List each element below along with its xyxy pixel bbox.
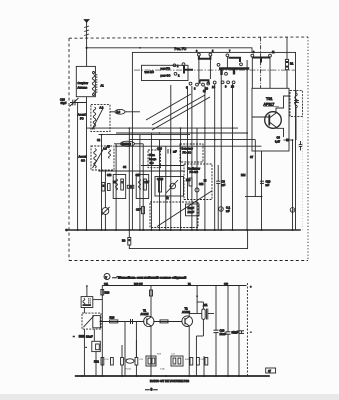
svg-text:A 2: A 2: [100, 106, 104, 110]
svg-text:R20: R20: [110, 316, 115, 320]
svg-text:V: V: [105, 275, 107, 279]
capacitor C20: [260, 180, 264, 182]
svg-text:mF: mF: [266, 183, 270, 187]
trimmer C1: [70, 102, 87, 104]
wire L6: [110, 111, 115, 113]
coil A3 dashed box: [91, 146, 114, 170]
wire vertical x214: [214, 84, 216, 230]
svg-text:AC125: AC125: [141, 312, 149, 316]
wire vertical x204: [204, 86, 206, 230]
svg-text:Oscillateur: Oscillateur: [188, 167, 200, 171]
svg-text:vers EO: vers EO: [145, 70, 154, 74]
variable capacitor gang: [102, 208, 109, 215]
svg-text:C17: C17: [136, 208, 141, 212]
left antenna stub: [86, 286, 88, 297]
svg-text:A5: A5: [107, 145, 111, 149]
svg-text:C18: C18: [60, 98, 65, 102]
svg-text:C6: C6: [277, 136, 281, 140]
svg-text:A1: A1: [101, 84, 105, 88]
wire vertical x151: [150, 133, 152, 230]
wire vertical x221: [220, 75, 222, 230]
oval L6: [115, 109, 125, 114]
capacitor top right: [300, 141, 302, 145]
wire vertical x86: [86, 97, 88, 230]
svg-text:C.1: C.1: [226, 206, 231, 210]
capacitor C19: [226, 331, 231, 333]
ground rail: [67, 229, 301, 231]
antenna: [84, 20, 89, 67]
wire vertical x232: [232, 84, 234, 230]
svg-text:FO: FO: [80, 117, 84, 121]
wire vertical x180: [180, 128, 182, 230]
wire R1 vertical: [286, 37, 288, 59]
capacitor C8: [216, 180, 220, 182]
capacitor mid: [130, 319, 132, 324]
wire pot to box3: [93, 329, 95, 341]
svg-text:R64 C65: R64 C65: [134, 284, 143, 286]
svg-text:10mF: 10mF: [220, 332, 227, 336]
dashed enclosure border right: [307, 37, 309, 261]
wire vertical x187: [187, 86, 189, 200]
volume pot dashed box: [82, 313, 101, 329]
IF transformer above T1: [150, 290, 153, 296]
coil A2 dashed box: [91, 105, 110, 132]
wire drop contact 7: [226, 57, 228, 68]
switch section divider: [260, 37, 262, 88]
wire C9: [114, 143, 121, 145]
switch lower contact circles: [189, 82, 192, 85]
switch contact lower U: [200, 80, 209, 84]
oscillator coil dashed box: [290, 91, 303, 117]
dashed enclosure border bottom: [69, 260, 308, 262]
wire vertical right of osc: [292, 140, 294, 230]
left column wire: [83, 308, 85, 314]
svg-text:Filtre: Filtre: [149, 153, 155, 157]
wire below rail loop: [129, 230, 247, 249]
wire osc bottom drops: [254, 151, 256, 197]
svg-text:– Tension au ralenti sans sign: – Tension au ralenti sans signal: [113, 276, 187, 280]
bottom component row: [101, 358, 104, 366]
capacitor C21: [239, 330, 244, 332]
meter V2: [290, 208, 295, 213]
wire osc box right: [295, 91, 297, 93]
svg-text:GO: GO: [81, 159, 85, 163]
switch contact bar B: [229, 58, 241, 62]
wire diagonal 3: [146, 94, 191, 120]
capacitor C1 bottom: [79, 335, 86, 338]
wire drop contact 11: [269, 57, 271, 88]
vertical with R18: [101, 286, 103, 322]
oscillator box: [252, 88, 289, 151]
wire vertical x165: [165, 146, 167, 230]
svg-text:C8: C8: [222, 180, 226, 184]
node antenna junction: [86, 47, 88, 49]
svg-text:10mF: 10mF: [86, 335, 93, 339]
svg-text:R14: R14: [241, 174, 246, 177]
wire vertical x197: [196, 128, 198, 230]
bottom rail thick: [75, 375, 270, 377]
svg-text:Pos. FO: Pos. FO: [175, 47, 187, 51]
verticals right bottom schematic: [215, 286, 217, 331]
svg-text:Accord: Accord: [78, 113, 87, 117]
resistor R20: [110, 320, 118, 323]
svg-text:pour GO: pour GO: [161, 74, 171, 78]
svg-text:Image: Image: [149, 157, 157, 161]
svg-text:C13: C13: [107, 174, 112, 177]
svg-text:2mA: 2mA: [160, 368, 165, 371]
small box 10mF: [186, 204, 200, 216]
resistor cluster left of IF box: [102, 183, 105, 192]
coil A1: [92, 75, 95, 93]
wire vertical x77: [77, 103, 79, 231]
resistor R1: [285, 59, 288, 69]
detecteur dashed box: [180, 144, 203, 162]
svg-text:Coupleur: Coupleur: [78, 81, 89, 85]
svg-text:FO-GO: FO-GO: [183, 151, 192, 155]
capacitor C16: [167, 149, 169, 154]
svg-text:Antenne: Antenne: [78, 86, 88, 90]
dashed enclosure border left: [68, 38, 70, 260]
svg-text:C18: C18: [220, 329, 225, 333]
switch contact T left: [184, 66, 193, 74]
svg-text:AF117: AF117: [264, 103, 275, 107]
wire vertical x116: [115, 144, 117, 230]
switch contact 1: [173, 64, 176, 67]
wire drop contact 3: [198, 59, 200, 79]
svg-text:mF: mF: [173, 150, 177, 154]
svg-text:C15: C15: [136, 174, 141, 177]
svg-text:pour FO: pour FO: [161, 67, 171, 71]
IF box 1: [113, 175, 126, 199]
switch contact big bar: [219, 68, 249, 76]
coupling box Coupleur Antenne: [76, 66, 95, 96]
wire vertical x143: [142, 144, 144, 230]
input box: [81, 297, 93, 308]
svg-text:R22: R22: [94, 360, 99, 364]
filtre image dashed box: [148, 150, 161, 168]
oval C9: [121, 141, 135, 146]
wire diagonal 2: [152, 97, 210, 130]
dashed battery vertical: [246, 283, 248, 377]
switch axis dash-dot: [134, 69, 295, 71]
detector box: [155, 177, 184, 197]
capacitor C18: [214, 329, 219, 331]
wire T1-T2: [153, 321, 182, 323]
svg-text:8mF: 8mF: [233, 330, 239, 334]
svg-text:— 3 —: — 3 —: [146, 388, 158, 392]
meter V1: [219, 207, 224, 212]
coupling parts between IF boxes: [127, 185, 134, 188]
svg-text:C18: C18: [199, 183, 204, 186]
switch outer box: [132, 52, 295, 230]
wire vertical x125: [124, 322, 126, 376]
scattered small labels: [97, 50, 275, 200]
IF box 2: [136, 175, 149, 199]
svg-text:mF: mF: [226, 209, 230, 213]
switch contact bar C: [252, 58, 270, 63]
mechanical link diagonal: [157, 191, 212, 227]
svg-text:30pF: 30pF: [61, 101, 67, 105]
svg-text:T31: T31: [266, 97, 273, 101]
svg-text:0,47: 0,47: [275, 140, 281, 144]
bottom gray band: [0, 394, 339, 400]
capacitor C6: [286, 139, 289, 142]
svg-text:R3: R3: [122, 239, 126, 243]
svg-text:OA70: OA70: [157, 178, 164, 181]
svg-text:10mF: 10mF: [188, 206, 195, 210]
wire drop contact 5: [209, 59, 211, 79]
wire vertical x139: [139, 135, 141, 230]
transistor T31: [252, 96, 289, 137]
wire vertical x129: [128, 128, 130, 230]
wire vertical x170: [170, 85, 172, 230]
47 box right: [266, 368, 276, 373]
caption circle V: [104, 274, 110, 280]
wire vertical x136: [135, 322, 137, 358]
wire diagonal 1: [152, 95, 205, 125]
wire bottom-right L: [245, 196, 262, 198]
switch contact bar A: [199, 56, 211, 59]
svg-text:12mF: 12mF: [188, 210, 195, 214]
switch inner box vers EO: [142, 65, 189, 80]
svg-text:R1: R1: [290, 62, 294, 66]
dashed enclosure border top: [69, 37, 308, 38]
switch contact 2: [174, 72, 177, 75]
wire vertical x247: [246, 60, 248, 230]
wire vertical x101: [101, 135, 103, 230]
oscillateur dashed box: [184, 164, 212, 200]
svg-text:R10: R10: [186, 179, 191, 182]
svg-text:RADIO GT DE VOITURE P10: RADIO GT DE VOITURE P10: [150, 380, 190, 383]
resistor R3 below rail: [128, 230, 130, 238]
wire box1 to R18: [93, 299, 103, 301]
wire vertical x105 upper: [104, 171, 106, 208]
tuning gang dashed box: [150, 202, 198, 228]
svg-text:5.6: 5.6: [117, 110, 121, 114]
svg-text:R18: R18: [105, 291, 110, 295]
mid horizontal wire: [100, 321, 145, 323]
wire vertical x159: [159, 140, 161, 230]
junction dots mid: [101, 47, 294, 198]
svg-text:25mA: 25mA: [125, 368, 131, 371]
svg-text:C20: C20: [266, 180, 271, 184]
wire vertical x105 lower: [104, 214, 106, 230]
wire top rail: [87, 48, 252, 53]
top rail bottom schematic: [102, 285, 246, 287]
box3: [92, 341, 101, 351]
scan crease dotted vertical: [302, 92, 304, 230]
rail junction dots: [77, 229, 294, 231]
wire drop contact 9: [251, 58, 253, 89]
svg-text:680/810: 680/810: [122, 142, 132, 146]
wire horizontals mid: [87, 127, 239, 129]
svg-text:Accord: Accord: [79, 155, 88, 159]
wire vertical x191: [191, 86, 193, 230]
svg-text:mF: mF: [222, 183, 226, 187]
resistor C17: [142, 207, 145, 214]
